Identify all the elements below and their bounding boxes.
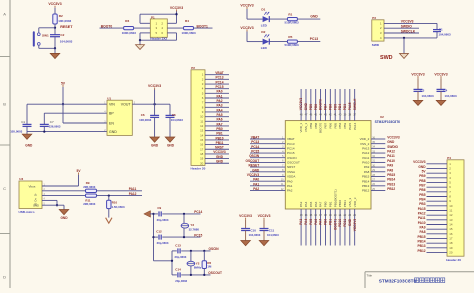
node BOOT0 [101,24,113,28]
svg-text:OSCOUT: OSCOUT [287,161,300,165]
svg-text:PA0: PA0 [253,178,259,182]
capacitor C2 [50,28,73,49]
svg-text:VSSA: VSSA [287,170,295,174]
wire [53,8,57,14]
wire [205,101,229,105]
svg-text:20p,0603: 20p,0603 [157,218,169,222]
wire [250,165,285,169]
svg-text:GND: GND [25,143,33,147]
wire [205,92,229,96]
svg-text:14: 14 [200,133,204,137]
node PB3 (P4 pin 10) [419,202,425,206]
wire [427,195,448,199]
svg-text:PA9: PA9 [420,225,426,229]
wire [250,142,285,146]
svg-text:GND: GND [60,216,68,220]
svg-text:PB5: PB5 [333,104,337,110]
svg-text:PC13: PC13 [310,37,318,41]
wire [348,89,352,121]
sheet border frame [0,0,10,288]
wire [309,89,313,121]
ground (C3) [413,100,423,105]
wire [338,209,342,246]
ground (C4) [150,137,160,147]
node PA15 (U2 pin 38) [348,102,352,130]
svg-text:13: 13 [200,129,204,133]
resistor R11 [83,194,96,206]
svg-text:PB11: PB11 [216,141,224,145]
node PA2 (P2 pin 7) [217,99,223,103]
svg-text:VCC3V3: VCC3V3 [239,214,252,218]
node BOOT1 [197,24,209,28]
wire [371,175,385,179]
wire [250,189,285,193]
wire [299,89,303,121]
wire [205,96,229,100]
svg-text:106,0603: 106,0603 [139,118,151,122]
ground (C10) [241,241,251,246]
svg-text:PB8: PB8 [419,179,425,183]
svg-text:GND: GND [109,130,117,134]
svg-text:C3: C3 [421,88,425,92]
svg-text:PB3: PB3 [419,202,425,206]
svg-text:GND: GND [387,140,395,144]
svg-text:PB0: PB0 [324,219,328,225]
node RESET [54,25,73,29]
node PA12 (P4 pin 12) [418,211,426,215]
svg-text:SWD: SWD [380,55,393,61]
node PB10 (U2 pin 21) [338,200,342,227]
svg-text:PB13: PB13 [387,182,395,186]
node PC15 (P2 pin 4) [216,85,224,89]
node PC13 (P2 pin 2) [216,76,224,80]
wire [427,185,448,189]
wire [427,237,448,241]
svg-text:GND: GND [348,218,352,226]
node PC15 (U2 pin 4) [251,150,295,156]
capacitor C7 [40,113,61,131]
svg-text:GND: GND [310,15,318,19]
svg-text:SW1: SW1 [42,33,49,37]
svg-text:PA3: PA3 [299,201,303,207]
svg-text:VDD_1: VDD_1 [299,122,303,132]
wire [371,179,385,183]
node RESET (U2 pin 7) [249,164,296,170]
svg-text:PB9: PB9 [419,174,425,178]
svg-text:PB0: PB0 [324,201,328,207]
wire [427,199,448,203]
svg-text:20: 20 [200,161,204,165]
wire [427,190,448,194]
svg-text:PA11: PA11 [418,216,426,220]
svg-text:PB4: PB4 [419,197,425,201]
wire [250,147,285,151]
svg-text:20p,0603: 20p,0603 [175,255,187,259]
svg-text:SWDIO: SWDIO [387,145,398,149]
svg-text:LED: LED [261,46,268,50]
wire [427,167,448,171]
node PB9 (P4 pin 4) [419,174,425,178]
node PA9 (U2 pin 30) [364,164,394,170]
wire ID [42,200,57,205]
svg-text:12: 12 [200,124,204,128]
svg-text:VCC3V3: VCC3V3 [170,6,183,10]
svg-text:PA5: PA5 [217,113,223,117]
wire [250,137,285,141]
capacitor C1 (input) [10,104,31,133]
power arrow (R10) [106,218,112,224]
svg-text:PB7: PB7 [324,122,328,128]
svg-text:12: 12 [449,213,453,217]
node GND (P4 pin 2) [418,165,426,169]
wire [100,26,124,30]
node PB9 (U2 pin 46) [309,104,313,129]
power port VCC3V3 (C4) [434,73,447,79]
svg-text:8MHz: 8MHz [194,266,202,270]
node NRST (P2 pin 17) [215,146,224,150]
svg-text:PA12: PA12 [387,150,395,154]
node GND (U2 pin 23) [348,198,352,226]
MCU U2 STM32F103C8T6 [285,115,400,209]
junction [183,213,185,215]
wire [314,209,318,246]
resistor R3 [122,19,137,35]
svg-text:R3: R3 [125,19,129,23]
wire rail [152,214,156,261]
svg-text:VDDA: VDDA [287,175,295,179]
svg-text:U3: U3 [19,177,23,181]
node PB8 (U2 pin 45) [314,104,318,129]
wire GND (USB) [42,205,64,209]
node PB10 (P2 pin 15) [216,136,224,140]
junction [403,37,405,39]
svg-text:OSCIN: OSCIN [249,154,260,158]
svg-text:GND: GND [304,102,308,110]
svg-text:VBAT: VBAT [215,71,223,75]
node PB6 (P4 pin 7) [419,188,425,192]
svg-text:PB12: PB12 [418,249,426,253]
svg-text:PA11: PA11 [129,187,137,191]
wire [319,89,323,121]
power port 5V (USB) [77,169,82,175]
svg-text:VCC3V3: VCC3V3 [213,150,226,154]
power port VCC3V3 (C10) [239,214,252,220]
node PB11 (P2 pin 16) [216,141,224,145]
node PB14 (P4 pin 18) [418,240,426,244]
svg-text:PA1: PA1 [287,184,293,188]
node PA2 (U2 pin 12) [253,187,293,193]
svg-text:PB6: PB6 [328,122,332,128]
junction [175,13,177,15]
header P3 (SWD) [372,16,384,47]
wire [39,45,55,48]
wire Vbus [42,175,79,186]
svg-text:BP: BP [109,112,114,116]
LED D2 [261,30,270,50]
wire [205,138,229,142]
node PA15 (P4 pin 11) [418,207,426,211]
svg-text:STM32F103C8T6: STM32F103C8T6 [375,120,401,124]
svg-text:PA15: PA15 [348,102,352,110]
svg-text:VDD_2: VDD_2 [360,137,370,141]
svg-text:NRST: NRST [287,165,295,169]
svg-text:PB1: PB1 [328,219,332,225]
ground (SWD) [380,54,409,61]
svg-text:R9: R9 [86,181,90,185]
node VBAT (U2 pin 1) [251,136,295,142]
svg-text:PB5: PB5 [419,193,425,197]
svg-text:PB13: PB13 [418,244,426,248]
node PB6 (U2 pin 42) [328,104,332,129]
capacitor C9 [154,206,201,222]
LED D1 [261,7,270,27]
svg-text:PC15: PC15 [251,150,259,154]
node PA5 (U2 pin 15) [309,201,313,224]
svg-text:RESET: RESET [249,164,260,168]
svg-text:PA10: PA10 [362,161,369,165]
svg-text:U1: U1 [107,96,111,100]
junction [203,274,205,276]
node PB14 (U2 pin 27) [362,178,395,184]
svg-text:C7: C7 [50,120,54,124]
svg-text:PB14: PB14 [418,240,426,244]
svg-text:100K,0603: 100K,0603 [182,31,197,35]
wire [371,184,385,188]
node PB13 (U2 pin 26) [362,182,395,188]
svg-text:18: 18 [449,241,453,245]
wire [343,89,347,121]
junction [43,130,45,132]
svg-text:PA14: PA14 [353,122,357,129]
node BOOT0 (U2 pin 44) [319,99,323,133]
node VCC3V3 (U2 pin 36) [360,136,400,142]
svg-text:104,0603: 104,0603 [60,40,73,44]
node PB8 (P4 pin 5) [419,179,425,183]
node VCC3V3 (SWD) [401,20,414,24]
node PA4 (P2 pin 9) [217,108,223,112]
wire [427,209,448,213]
node OSCIN [209,247,220,251]
resistor R10 [107,196,125,209]
svg-text:PA1: PA1 [253,182,259,186]
regulator U1 [104,96,136,135]
node PA0 (P2 pin 5) [217,90,223,94]
node PB12 (U2 pin 25) [362,187,395,193]
node PA12 (U2 pin 33) [362,150,395,156]
wire [427,162,448,166]
svg-text:PB9: PB9 [309,122,313,128]
node PB5 (U2 pin 41) [333,104,337,129]
svg-text:R2: R2 [59,14,63,18]
node GND (P2 pin 19) [216,155,224,159]
svg-text:GND: GND [216,155,224,159]
svg-text:C12: C12 [156,230,162,234]
node PC13 [310,37,318,41]
svg-text:VCC3V3: VCC3V3 [48,2,61,6]
svg-text:Title: Title [367,273,373,277]
crystal Y3 [181,214,199,237]
wire [353,89,357,121]
node PB1 (U2 pin 19) [328,201,332,225]
svg-text:PA1: PA1 [217,94,223,98]
svg-text:P1: P1 [151,15,155,19]
svg-text:VCC3V3: VCC3V3 [258,214,271,218]
wire EN [63,104,107,123]
junction [183,236,185,238]
svg-text:PA2: PA2 [287,189,293,193]
wire [371,189,385,193]
wire [427,227,448,231]
svg-text:19: 19 [449,246,453,250]
wire D- [42,189,86,193]
power arrow (crystal rail) [144,211,154,218]
node PB15 (P4 pin 17) [418,235,426,239]
node PC15 [194,233,202,237]
wire [134,26,151,30]
node PA11 (U2 pin 32) [362,154,395,160]
svg-text:C11: C11 [269,228,275,232]
wire VOUT [132,102,170,106]
wire [205,147,229,151]
svg-text:VCC3V3: VCC3V3 [240,3,253,7]
svg-text:RESET: RESET [60,25,73,29]
svg-text:C: C [3,186,6,191]
wire [333,209,337,246]
capacitor C11 [260,220,280,241]
svg-text:PB14: PB14 [362,179,370,183]
svg-text:C6: C6 [141,113,145,117]
node PB13 (P4 pin 19) [418,244,426,248]
svg-text:PB12: PB12 [362,189,370,193]
svg-text:PA7: PA7 [319,201,323,207]
node VCC3V3 (U2 pin 9) [247,173,296,179]
svg-text:VCC3V3: VCC3V3 [353,219,357,232]
svg-text:PB3: PB3 [343,122,347,128]
svg-text:R4: R4 [185,19,189,23]
junction [190,250,192,252]
wire [304,209,308,246]
node GND (U2 pin 47) [304,102,308,132]
wire [348,209,352,246]
wire VIN rail [27,102,107,106]
svg-text:510R,0603: 510R,0603 [285,21,300,25]
svg-text:13: 13 [449,218,453,222]
wire [154,251,173,275]
wire [205,78,229,82]
svg-text:Y2: Y2 [196,261,200,265]
node VCC3V3 (U2 pin 24) [353,197,357,231]
wire [427,171,448,175]
capacitor C1 (SWD) [433,23,451,38]
svg-text:PA9: PA9 [387,164,393,168]
capacitor C5 [166,104,184,137]
node PA10 (U2 pin 31) [362,159,395,165]
svg-text:PA5: PA5 [309,219,313,225]
node PA6 (U2 pin 16) [314,201,318,224]
wire [247,32,263,42]
svg-text:PC14: PC14 [287,146,295,150]
svg-text:R5: R5 [288,35,292,39]
svg-text:17: 17 [449,237,453,241]
node PA4 (U2 pin 14) [304,201,308,224]
svg-text:P4: P4 [447,156,451,160]
svg-text:PB14: PB14 [387,178,395,182]
ground (C4) [436,100,446,105]
svg-text:PB5: PB5 [333,122,337,128]
node PA7 (P2 pin 12) [217,122,223,126]
wire [304,89,308,121]
wire BP [44,111,107,115]
wire [297,40,320,44]
wire [250,151,285,155]
svg-text:STM32F103C8T6: STM32F103C8T6 [379,278,417,283]
svg-text:PB3: PB3 [343,104,347,110]
svg-text:PB2(BOOT1): PB2(BOOT1) [333,189,337,207]
node PB4 (U2 pin 40) [338,104,342,129]
node PC14 (U2 pin 3) [251,145,295,151]
svg-text:PB10: PB10 [216,136,224,140]
svg-text:14: 14 [449,223,453,227]
junction [54,47,56,49]
svg-text:NRST: NRST [215,146,224,150]
svg-text:P3: P3 [372,16,376,20]
wire [269,17,287,21]
node PC13 (U2 pin 2) [251,140,295,146]
junction [139,39,141,41]
svg-text:PB9: PB9 [309,104,313,110]
svg-text:104,0603: 104,0603 [439,33,451,37]
svg-text:PA12: PA12 [129,192,137,196]
svg-text:PC15: PC15 [194,233,202,237]
svg-text:104,0603: 104,0603 [267,233,279,237]
node PB1 (P2 pin 14) [216,132,222,136]
svg-text:PB7: PB7 [324,104,328,110]
wire [329,89,333,121]
header P1 [150,15,167,40]
node PB3 (U2 pin 39) [343,104,347,129]
svg-text:PB4: PB4 [338,122,342,128]
wire [205,73,229,77]
wire [384,22,437,26]
svg-text:PC14: PC14 [216,80,224,84]
node PB0 (U2 pin 18) [324,201,328,225]
node GND (P2 pin 20) [216,160,224,164]
resistor R1 [285,13,300,25]
header P4 [446,156,464,262]
wire [205,82,229,86]
node GND (U2 pin 35) [360,140,395,146]
node PB7 (P4 pin 6) [419,183,425,187]
junction [190,274,192,276]
svg-text:PB6: PB6 [419,188,425,192]
capacitor C12 [154,230,201,246]
svg-text:PA15: PA15 [348,122,352,129]
svg-text:PB8: PB8 [314,104,318,110]
wire [205,161,229,165]
wire [107,209,111,218]
svg-text:R10: R10 [112,200,118,204]
node OSCOUT (U2 pin 6) [246,159,300,165]
svg-text:PA0: PA0 [287,179,293,183]
svg-text:VCC3V3: VCC3V3 [299,98,303,111]
wire [371,161,385,165]
svg-text:LED: LED [261,24,268,28]
wire [205,110,229,114]
wire [384,36,437,40]
wire [314,89,318,121]
wire [384,31,419,35]
svg-text:PA10: PA10 [418,221,426,225]
